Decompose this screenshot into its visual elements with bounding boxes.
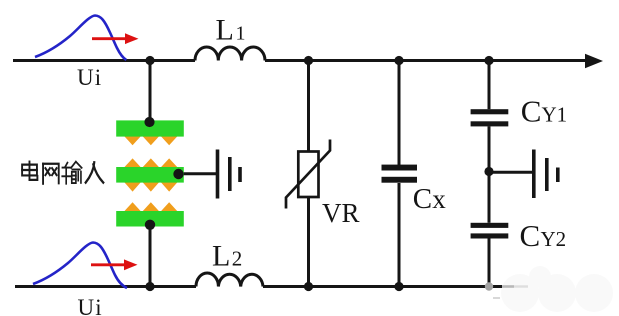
svg-text:1: 1 [236,23,246,45]
svg-text:L: L [212,239,230,272]
svg-text:L: L [216,14,234,47]
svg-text:Ui: Ui [77,65,102,90]
svg-text:C: C [520,218,541,253]
svg-text:VR: VR [322,198,360,228]
svg-text:Y2: Y2 [541,227,567,251]
svg-text:Ui: Ui [78,295,103,316]
svg-text:Y1: Y1 [542,103,568,127]
svg-text:x: x [432,184,446,214]
svg-text:C: C [521,94,542,129]
svg-text:2: 2 [232,246,243,270]
svg-text:C: C [413,183,432,215]
